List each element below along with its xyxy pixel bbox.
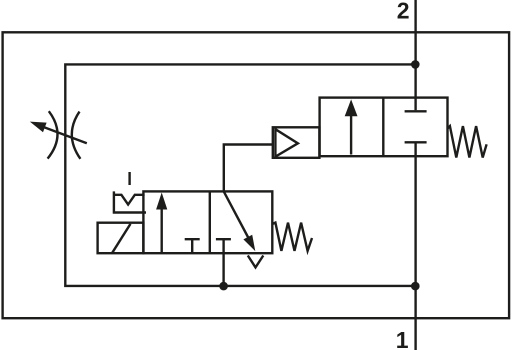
pilot Z1 (pneumatic pilot) box	[273, 127, 320, 158]
node junction valve V1 outlet / bottom rail	[219, 282, 228, 291]
valve V1 solenoid coil	[98, 223, 144, 254]
valve V1 outlet line to bottom rail	[222, 239, 224, 286]
valve V1 exhaust port triangle	[248, 256, 263, 268]
wire V1 top port to pilot Z1	[224, 145, 273, 192]
svg-text:2: 2	[397, 0, 410, 24]
valve V2 (2/2-way pilot operated) body	[320, 98, 448, 157]
valve V1 return spring	[272, 223, 312, 251]
valve V1 (3/2-way) body	[143, 191, 272, 253]
valve V1 right-position blocked port T	[216, 238, 231, 240]
pilot Z1 triangle	[275, 129, 298, 157]
port 1 line	[414, 143, 416, 350]
valve V1 left-position flow arrow	[160, 208, 162, 253]
valve V2 position divider	[382, 98, 384, 157]
valve V1 position divider	[209, 191, 211, 253]
node junction top (port 2 / inner frame)	[411, 60, 420, 69]
valve V1 manual override actuator	[113, 191, 146, 213]
inner frame (flow path loop)	[65, 64, 415, 286]
node junction bottom (port 1 / inner frame)	[411, 282, 420, 291]
throttle valve (flow control) arcs	[48, 111, 81, 159]
valve V1 manual override tick	[128, 172, 130, 185]
valve V1 right-position exhaust flow arrow	[224, 192, 249, 239]
valve V1 left-position blocked port T	[185, 239, 200, 253]
svg-text:1: 1	[396, 327, 409, 350]
valve V2 left-position flow arrow	[350, 115, 352, 155]
valve V2 right-position blocked port T top	[405, 110, 427, 112]
throttle valve adjustment arrow	[45, 127, 87, 143]
valve V2 return spring	[448, 126, 487, 157]
port 2 line	[414, 0, 416, 110]
valve V2 right-position blocked port T bottom	[405, 141, 427, 143]
